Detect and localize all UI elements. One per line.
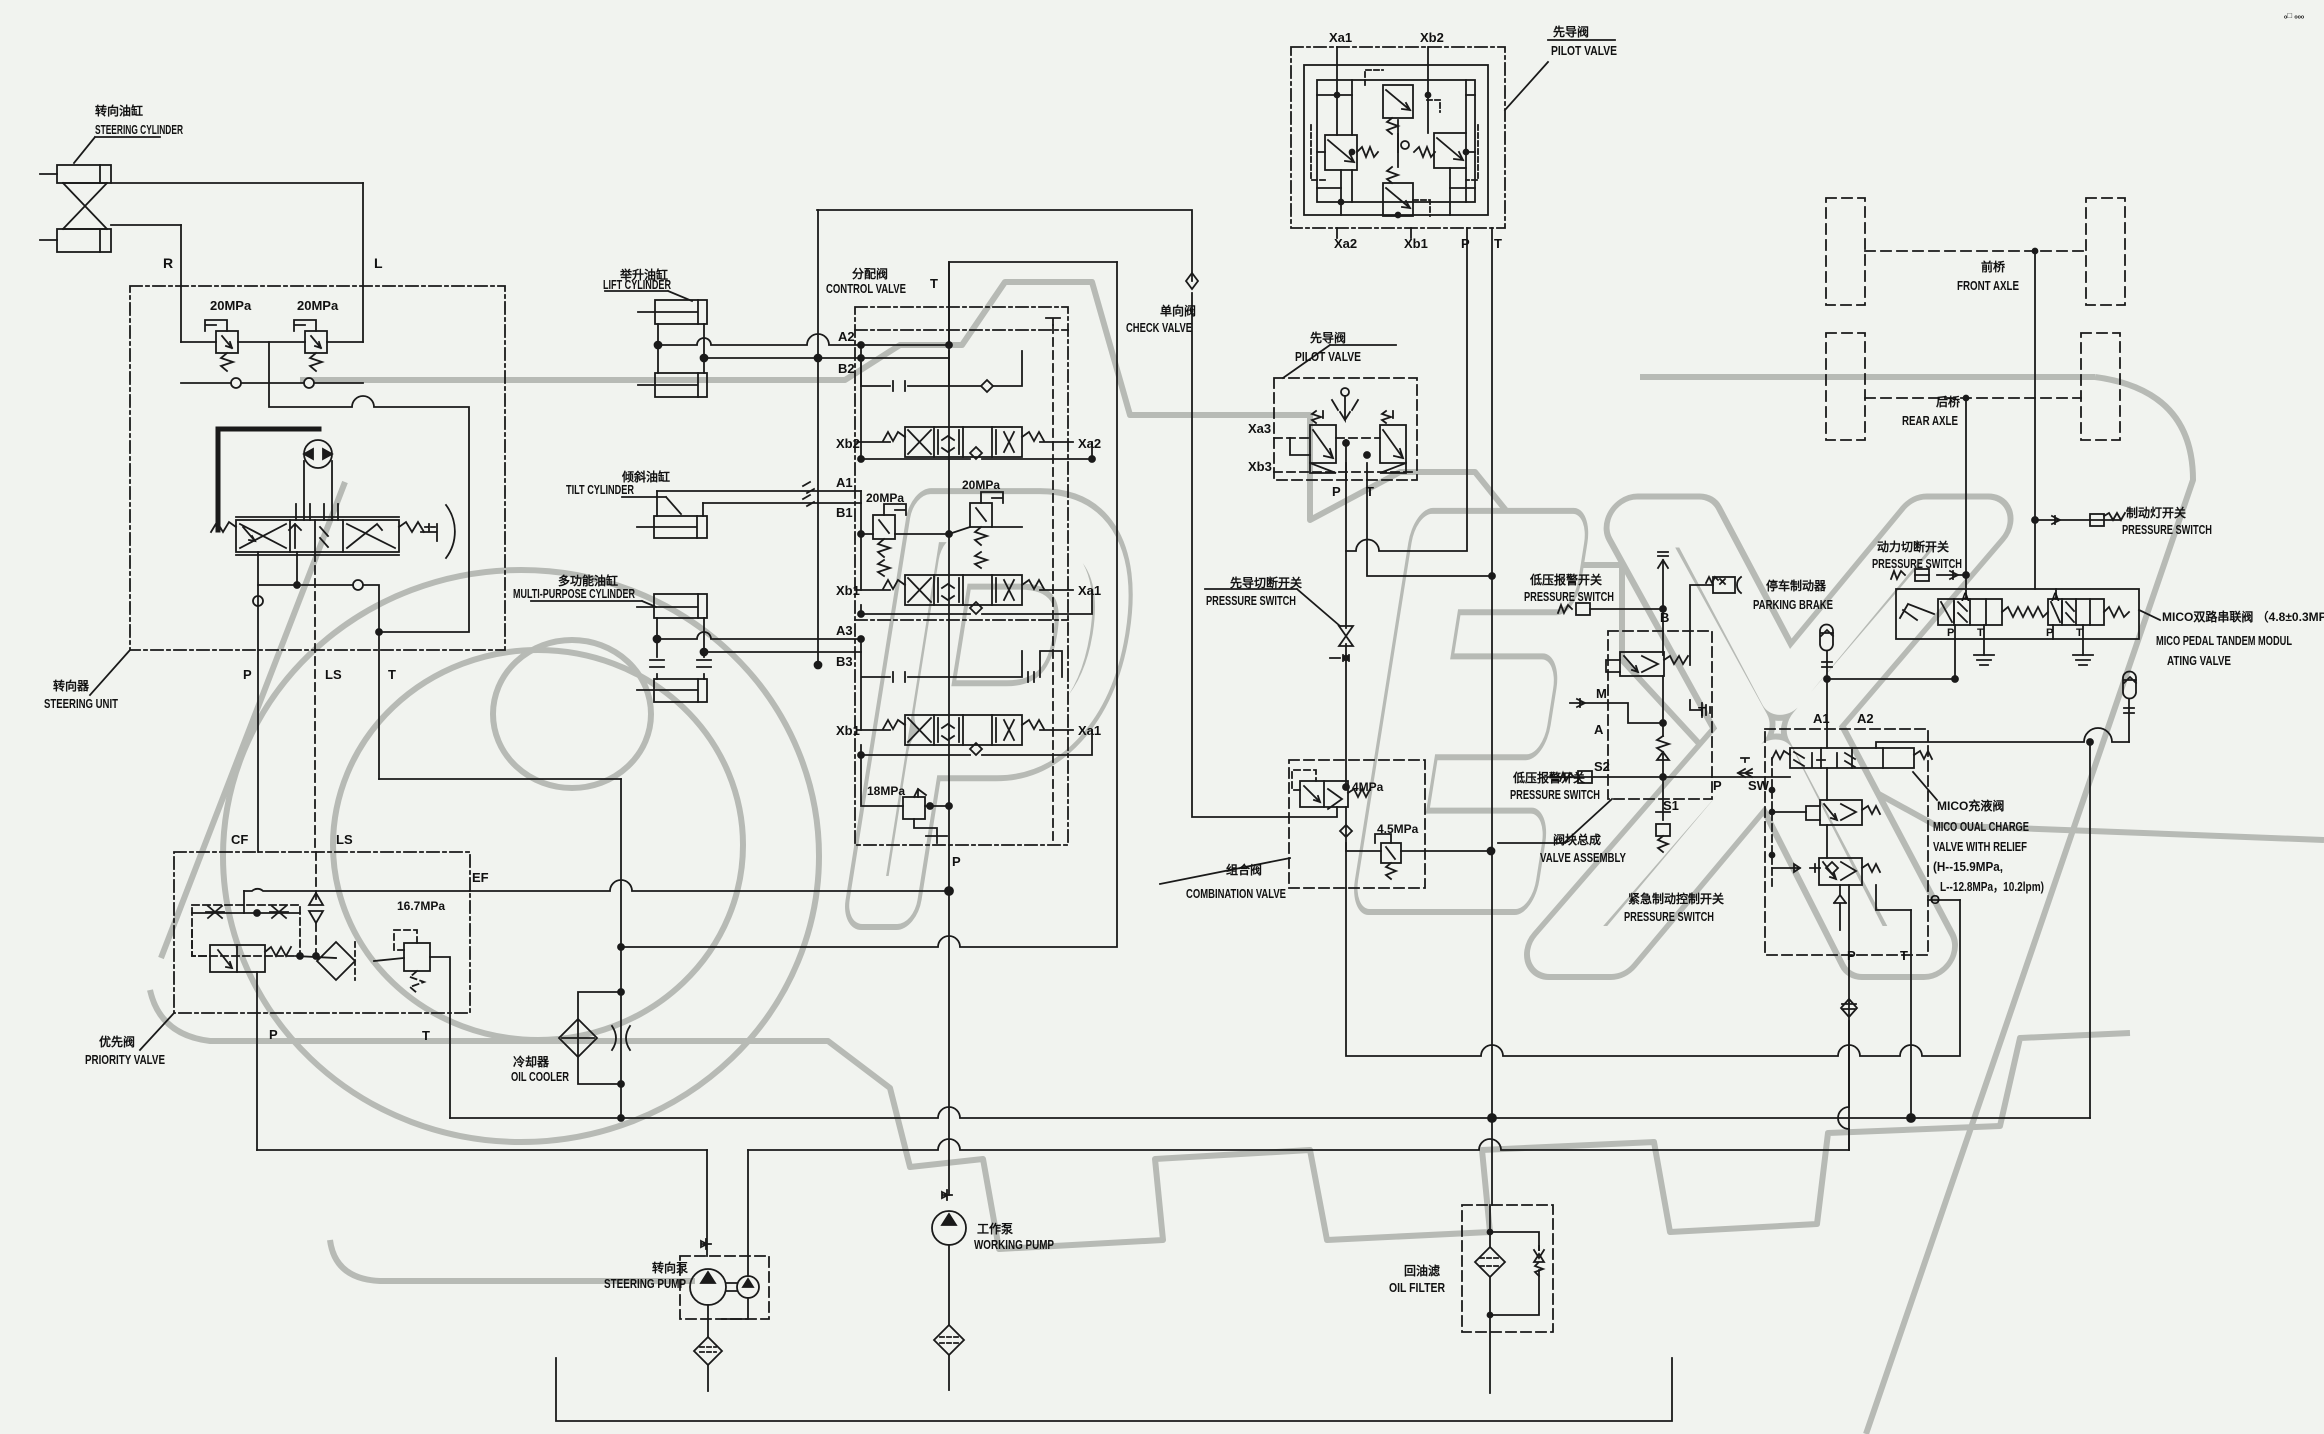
svg-text:FRONT AXLE: FRONT AXLE bbox=[1957, 278, 2019, 293]
svg-text:STEERING UNIT: STEERING UNIT bbox=[44, 696, 118, 711]
svg-text:Xa3: Xa3 bbox=[1248, 421, 1271, 436]
svg-text:P: P bbox=[1947, 627, 1954, 639]
svg-text:M: M bbox=[1596, 686, 1607, 701]
svg-text:L: L bbox=[374, 255, 383, 271]
svg-text:P: P bbox=[2046, 627, 2053, 639]
svg-text:TILT CYLINDER: TILT CYLINDER bbox=[566, 482, 634, 497]
svg-text:A1: A1 bbox=[1813, 711, 1830, 726]
svg-text:R: R bbox=[163, 255, 173, 271]
svg-text:Xa1: Xa1 bbox=[1329, 30, 1352, 45]
svg-text:T: T bbox=[1977, 627, 1984, 639]
svg-text:低压报警开关: 低压报警开关 bbox=[1512, 770, 1585, 785]
svg-text:Xa1: Xa1 bbox=[1078, 583, 1101, 598]
svg-text:OIL COOLER: OIL COOLER bbox=[511, 1069, 569, 1084]
svg-text:Xb1: Xb1 bbox=[836, 723, 860, 738]
svg-text:T: T bbox=[422, 1028, 430, 1043]
svg-text:转向器: 转向器 bbox=[53, 678, 90, 693]
svg-text:T: T bbox=[1900, 948, 1908, 963]
svg-text:T: T bbox=[388, 667, 396, 682]
svg-text:Xa1: Xa1 bbox=[1078, 723, 1101, 738]
svg-text:冷却器: 冷却器 bbox=[513, 1054, 550, 1069]
svg-text:单向阀: 单向阀 bbox=[1160, 303, 1196, 318]
svg-text:PARKING BRAKE: PARKING BRAKE bbox=[1753, 597, 1833, 612]
svg-text:T: T bbox=[1494, 236, 1502, 251]
svg-text:STEERING CYLINDER: STEERING CYLINDER bbox=[95, 122, 183, 137]
svg-text:制动灯开关: 制动灯开关 bbox=[2126, 505, 2186, 520]
svg-text:PILOT VALVE: PILOT VALVE bbox=[1295, 349, 1361, 364]
svg-text:P: P bbox=[1332, 484, 1341, 499]
svg-text:EF: EF bbox=[472, 870, 489, 885]
svg-text:P: P bbox=[1461, 236, 1470, 251]
svg-text:20MPa: 20MPa bbox=[962, 478, 1000, 492]
svg-text:PRESSURE SWITCH: PRESSURE SWITCH bbox=[1524, 589, 1614, 604]
svg-text:PRESSURE SWITCH: PRESSURE SWITCH bbox=[1872, 556, 1962, 571]
svg-text:ATING VALVE: ATING VALVE bbox=[2167, 653, 2231, 668]
svg-text:MICO充液阀: MICO充液阀 bbox=[1937, 798, 2004, 813]
svg-text:PILOT VALVE: PILOT VALVE bbox=[1551, 43, 1617, 58]
svg-text:MICO OUAL CHARGE: MICO OUAL CHARGE bbox=[1933, 819, 2029, 834]
svg-text:WORKING PUMP: WORKING PUMP bbox=[974, 1237, 1054, 1252]
svg-text:停车制动器: 停车制动器 bbox=[1766, 578, 1827, 593]
svg-text:P: P bbox=[952, 854, 961, 869]
svg-text:回油滤: 回油滤 bbox=[1404, 1263, 1440, 1278]
svg-text:动力切断开关: 动力切断开关 bbox=[1877, 539, 1949, 554]
svg-text:20MPa: 20MPa bbox=[866, 491, 904, 505]
svg-text:PRIORITY VALVE: PRIORITY VALVE bbox=[85, 1052, 165, 1067]
svg-text:CF: CF bbox=[231, 832, 248, 847]
svg-text:T: T bbox=[1366, 484, 1374, 499]
svg-text:T: T bbox=[1698, 704, 1706, 719]
svg-text:LS: LS bbox=[325, 667, 342, 682]
svg-text:PRESSURE SWITCH: PRESSURE SWITCH bbox=[2122, 522, 2212, 537]
svg-text:PRESSURE SWITCH: PRESSURE SWITCH bbox=[1206, 593, 1296, 608]
svg-text:O: O bbox=[1930, 892, 1940, 907]
svg-text:Xb1: Xb1 bbox=[836, 583, 860, 598]
svg-text:组合阀: 组合阀 bbox=[1226, 862, 1262, 877]
svg-text:PRESSURE SWITCH: PRESSURE SWITCH bbox=[1624, 909, 1714, 924]
svg-text:VALVE ASSEMBLY: VALVE ASSEMBLY bbox=[1540, 850, 1626, 865]
svg-text:转向泵: 转向泵 bbox=[652, 1260, 688, 1275]
svg-text:4MPa: 4MPa bbox=[1352, 780, 1384, 794]
svg-text:A3: A3 bbox=[836, 623, 853, 638]
svg-text:L--12.8MPa，10.2lpm): L--12.8MPa，10.2lpm) bbox=[1940, 879, 2044, 894]
svg-text:A: A bbox=[1594, 722, 1604, 737]
svg-text:Xb3: Xb3 bbox=[1248, 459, 1272, 474]
svg-text:工作泵: 工作泵 bbox=[977, 1221, 1013, 1236]
svg-text:MICO双路串联阀 （4.8±0.3MPa）: MICO双路串联阀 （4.8±0.3MPa） bbox=[2162, 609, 2324, 624]
svg-text:先导切断开关: 先导切断开关 bbox=[1230, 575, 1302, 590]
svg-text:Xa2: Xa2 bbox=[1334, 236, 1357, 251]
svg-text:A1: A1 bbox=[836, 475, 853, 490]
svg-text:CHECK VALVE: CHECK VALVE bbox=[1126, 320, 1192, 335]
svg-text:A2: A2 bbox=[838, 329, 855, 344]
svg-text:B2: B2 bbox=[838, 361, 855, 376]
svg-text:P: P bbox=[1847, 948, 1856, 963]
svg-text:阀块总成: 阀块总成 bbox=[1553, 832, 1601, 847]
svg-text:A: A bbox=[2051, 590, 2060, 604]
svg-text:OIL FILTER: OIL FILTER bbox=[1389, 1280, 1445, 1295]
svg-text:Xb1: Xb1 bbox=[1404, 236, 1428, 251]
svg-text:B3: B3 bbox=[836, 654, 853, 669]
svg-text:18MPa: 18MPa bbox=[867, 784, 905, 798]
svg-text:COMBINATION VALVE: COMBINATION VALVE bbox=[1186, 886, 1286, 901]
svg-text:STEERING PUMP: STEERING PUMP bbox=[604, 1276, 686, 1291]
svg-text:B: B bbox=[1660, 610, 1669, 625]
svg-text:16.7MPa: 16.7MPa bbox=[397, 899, 445, 913]
svg-text:Xa2: Xa2 bbox=[1078, 436, 1101, 451]
svg-text:S2: S2 bbox=[1594, 759, 1610, 774]
svg-text:Xb2: Xb2 bbox=[836, 436, 860, 451]
svg-text:A: A bbox=[1961, 590, 1970, 604]
svg-text:后桥: 后桥 bbox=[1936, 394, 1961, 409]
svg-text:ₒ□ ₒₒₒ: ₒ□ ₒₒₒ bbox=[2284, 11, 2305, 20]
svg-text:20MPa: 20MPa bbox=[210, 298, 252, 313]
svg-text:MULTI-PURPOSE CYLINDER: MULTI-PURPOSE CYLINDER bbox=[513, 586, 635, 601]
svg-text:SW: SW bbox=[1748, 778, 1770, 793]
svg-text:B1: B1 bbox=[836, 505, 853, 520]
svg-text:T: T bbox=[930, 276, 938, 291]
svg-text:紧急制动控制开关: 紧急制动控制开关 bbox=[1628, 891, 1724, 906]
svg-text:A2: A2 bbox=[1857, 711, 1874, 726]
svg-text:REAR AXLE: REAR AXLE bbox=[1902, 413, 1958, 428]
svg-text:VALVE WITH RELIEF: VALVE WITH RELIEF bbox=[1933, 839, 2027, 854]
svg-text:T: T bbox=[2076, 627, 2083, 639]
svg-text:P: P bbox=[269, 1027, 278, 1042]
svg-text:先导阀: 先导阀 bbox=[1553, 24, 1589, 39]
svg-text:前桥: 前桥 bbox=[1981, 259, 2006, 274]
svg-text:分配阀: 分配阀 bbox=[852, 266, 888, 281]
svg-text:MICO PEDAL TANDEM MODUL: MICO PEDAL TANDEM MODUL bbox=[2156, 633, 2292, 648]
svg-text:Xb2: Xb2 bbox=[1420, 30, 1444, 45]
svg-text:低压报警开关: 低压报警开关 bbox=[1529, 572, 1602, 587]
svg-text:PRESSURE SWITCH: PRESSURE SWITCH bbox=[1510, 787, 1600, 802]
svg-text:4.5MPa: 4.5MPa bbox=[1377, 822, 1419, 836]
svg-text:P: P bbox=[1713, 778, 1722, 793]
svg-text:先导阀: 先导阀 bbox=[1310, 330, 1346, 345]
svg-text:P: P bbox=[243, 667, 252, 682]
svg-text:S1: S1 bbox=[1663, 798, 1679, 813]
svg-text:LS: LS bbox=[336, 832, 353, 847]
svg-text:20MPa: 20MPa bbox=[297, 298, 339, 313]
svg-text:优先阀: 优先阀 bbox=[99, 1034, 135, 1049]
svg-text:转向油缸: 转向油缸 bbox=[95, 103, 143, 118]
svg-text:(H--15.9MPa,: (H--15.9MPa, bbox=[1933, 859, 2003, 874]
svg-text:LIFT CYLINDER: LIFT CYLINDER bbox=[603, 277, 671, 292]
svg-text:CONTROL VALVE: CONTROL VALVE bbox=[826, 281, 906, 296]
